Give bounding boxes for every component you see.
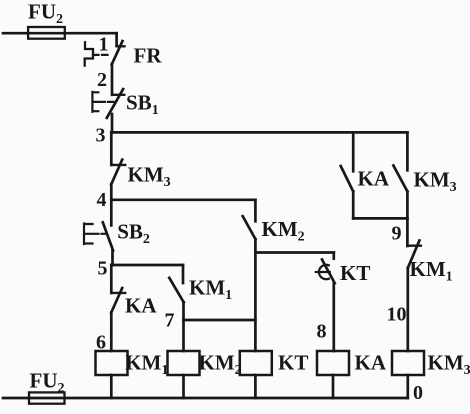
wire node 1-2 segment: [111, 64, 114, 95]
wire node3 to KM3 contact: [110, 132, 113, 165]
wire top feed: [3, 32, 117, 35]
svg-text:FU2: FU2: [30, 369, 65, 397]
contact FR blade: [112, 41, 123, 65]
svg-text:0: 0: [413, 382, 423, 404]
wire KM2 contact down: [254, 239, 257, 253]
contact KT blade: [322, 260, 335, 284]
contact SB1 blade: [107, 89, 123, 118]
contact KM3 blade (top right): [393, 166, 407, 192]
svg-text:5: 5: [98, 257, 108, 279]
contact KM3 blade: [111, 160, 122, 185]
contact KT delay symbol: [316, 265, 330, 279]
wire node 2-3 segment: [111, 114, 114, 132]
wire node4 to SB2: [110, 200, 113, 226]
pushbutton SB1 actuator: [92, 92, 98, 112]
thermal element FR zigzag: [85, 42, 93, 65]
svg-text:KM1: KM1: [189, 276, 232, 304]
wire bottom bus: [3, 397, 408, 400]
contact KM3 branch (top right): stub down: [406, 132, 409, 170]
SB2 dashed link: [94, 233, 107, 235]
fuse FU2 (top): [28, 27, 65, 39]
contact KA blade (top right): [341, 166, 354, 191]
contact KM1 branch: wire node5 corner down: [182, 265, 185, 283]
wire coil KM2 to bus: [182, 375, 185, 398]
svg-text:KM1: KM1: [410, 257, 453, 285]
wire coil KA to bus: [332, 375, 335, 398]
wire KT contact to node 8 and coil KA: [332, 283, 335, 351]
FR dashed link: [93, 54, 110, 56]
svg-text:9: 9: [392, 223, 402, 245]
wire node 10 to coil KM3: [406, 268, 409, 351]
wire node 7 rail: [184, 319, 256, 322]
wire coil KM3 to bus: [406, 375, 409, 398]
svg-text:KM3: KM3: [414, 168, 457, 196]
contact KA blade: [111, 288, 122, 312]
contact KM1 NC tick: [407, 244, 421, 246]
wire KM3 to node 4: [110, 184, 113, 200]
svg-text:7: 7: [165, 310, 175, 332]
contact SB1 NC tick: [113, 94, 125, 96]
wire node9 to KM1 NC: [406, 218, 409, 246]
svg-text:KA: KA: [358, 167, 390, 191]
contact KM2 blade: [243, 216, 256, 239]
contact KM3 NC tick: [111, 164, 125, 166]
svg-text:8: 8: [317, 320, 327, 342]
svg-text:KM2: KM2: [262, 217, 305, 245]
coil KA: [317, 351, 349, 375]
wire node 4 rail: [111, 198, 255, 201]
contact KA branch (top right): stub down: [352, 132, 355, 171]
wire SB2 to node 5: [111, 251, 114, 266]
wire coil KT to bus: [254, 375, 257, 398]
coil KM3: [392, 351, 424, 375]
coil KT: [240, 351, 272, 375]
wire corner down to FR: [115, 33, 118, 45]
svg-text:FR: FR: [134, 44, 163, 68]
SB1 dashed link: [100, 101, 114, 103]
svg-text:KM3: KM3: [128, 163, 171, 191]
contact KM2 branch: wire node4 corner down: [254, 200, 257, 222]
wire node 5 rail: [111, 264, 183, 267]
wire coil KM1 to bus: [110, 375, 113, 398]
contact KA NC tick: [111, 292, 125, 294]
wire node7 to coil KM2: [182, 320, 185, 351]
svg-text:KM2: KM2: [199, 351, 242, 379]
svg-text:2: 2: [97, 69, 107, 91]
wire node5 to KA contact: [110, 265, 113, 293]
wire KA contact to node 9 rail: [352, 191, 355, 218]
wire KM2-KT link rail: [255, 251, 333, 254]
svg-text:FU2: FU2: [28, 0, 63, 27]
contact SB2 blade: [103, 222, 113, 250]
wire KA to node 6 and coil KM1: [110, 312, 113, 351]
svg-text:SB1: SB1: [126, 91, 159, 119]
contact FR NC tick: [117, 45, 125, 47]
coil KM1: [96, 351, 128, 375]
svg-text:4: 4: [97, 189, 107, 211]
wire node 9 rail: [353, 217, 407, 220]
wire node 3 rail: [111, 131, 407, 134]
fuse FU2 (bottom): [29, 392, 65, 403]
wire KM1 contact to node 7: [182, 302, 185, 320]
contact KM1 NC blade: [408, 241, 420, 269]
svg-text:KT: KT: [278, 351, 308, 375]
svg-text:SB2: SB2: [117, 220, 150, 248]
svg-text:KT: KT: [340, 261, 370, 285]
svg-text:3: 3: [96, 125, 106, 147]
wire KM3 contact to node 9 rail: [406, 191, 409, 218]
coil KM2: [168, 351, 200, 375]
svg-text:1: 1: [99, 33, 109, 55]
svg-text:10: 10: [387, 303, 407, 325]
contact KM1 blade: [169, 278, 183, 303]
svg-text:6: 6: [96, 331, 106, 353]
svg-text:KA: KA: [355, 351, 387, 375]
svg-text:KA: KA: [125, 294, 157, 318]
contact KT branch: top stub: [332, 253, 335, 259]
pushbutton SB2 actuator: [84, 224, 93, 245]
wire down to coil KT: [254, 253, 257, 352]
svg-text:KM3: KM3: [428, 351, 470, 379]
svg-text:KM1: KM1: [125, 351, 168, 379]
